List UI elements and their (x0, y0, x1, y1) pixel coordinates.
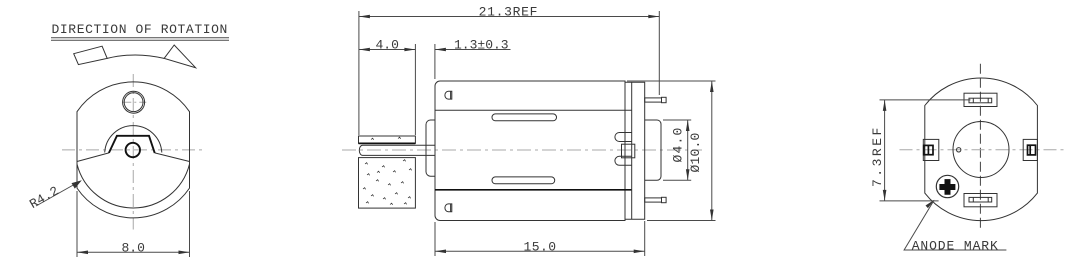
eccentric weight top-right edge (155, 153, 190, 162)
small vent mark bottom (445, 204, 452, 212)
terminal bottom outer (964, 194, 997, 207)
dim 21.3REF dimension line (359, 16, 659, 18)
front bearing boss (426, 120, 435, 176)
weight flange bottom edge (thick) (359, 142, 416, 144)
terminal pin bottom (645, 198, 662, 202)
top screw inner circle (124, 93, 143, 112)
svg-text:7.3REF: 7.3REF (870, 125, 885, 187)
dim Ø10.0 arrows (710, 81, 714, 221)
anode mark circle (936, 175, 958, 197)
axis centerline (342, 149, 702, 151)
shaft top and bottom lines (363, 145, 435, 155)
brush hook upper (615, 133, 632, 142)
dim 1.3±0.3 extension line (434, 44, 436, 79)
rotation arrow arc (107, 55, 164, 58)
brush hook lower (615, 156, 632, 165)
shaft left end cap (359, 145, 362, 155)
end bell (625, 82, 645, 219)
dim 1.3±0.3 dimension line (435, 49, 511, 51)
svg-text:ANODE MARK: ANODE MARK (912, 239, 999, 254)
dim 4.0 extension line right (414, 44, 416, 135)
dim 8.0 dimension line (77, 251, 190, 253)
terminal left outer (923, 139, 939, 160)
svg-text:Ø4.0: Ø4.0 (671, 126, 686, 162)
dim 8.0 extension lines (77, 191, 190, 257)
boss trapezoid (thick) (109, 136, 155, 153)
dim Ø10.0 extension lines (627, 81, 716, 221)
dim 4.0 text (376, 38, 399, 53)
dim Ø4.0 text (671, 126, 686, 162)
dim 21.3REF text (479, 5, 539, 20)
weight top flange (359, 136, 416, 143)
motor body outline (front view) (77, 82, 190, 218)
anode mark plus (939, 179, 955, 195)
eccentric weight bottom arc (77, 164, 190, 208)
terminal right outer (1023, 139, 1037, 160)
terminal pin top (645, 98, 662, 102)
dim Ø4.0 extension lines (663, 120, 691, 180)
end bell step line (631, 82, 633, 219)
dim 15.0 extension lines (435, 221, 645, 256)
bearing boss arc (105, 126, 162, 153)
svg-text:4.0: 4.0 (376, 38, 399, 53)
dim 4.0 dimension line (359, 49, 416, 51)
dim 21.3REF arrows (359, 15, 659, 19)
rotation arrow tail rectangle (74, 46, 108, 64)
svg-text:21.3REF: 21.3REF (479, 5, 539, 20)
anode leader arrowhead (926, 200, 935, 208)
dim 7.3REF arrows (883, 100, 887, 201)
small shaft hole (957, 148, 961, 152)
svg-text:15.0: 15.0 (524, 240, 557, 255)
terminal pin bottom cap (662, 197, 667, 202)
ANODE MARK text (912, 239, 999, 254)
label underline (double) (51, 38, 229, 40)
dim 7.3REF dimension line (884, 100, 886, 201)
anode leader line (904, 200, 1006, 250)
dim Ø10.0 text (688, 132, 703, 172)
dim 8.0 arrows (77, 251, 190, 255)
motor body outline (side view) (435, 81, 625, 221)
terminal right divider (1029, 145, 1031, 155)
shaft end bearing box (622, 144, 635, 158)
weight speckle texture (363, 137, 412, 205)
dim Ø4.0 arrows (686, 120, 690, 180)
svg-text:Ø10.0: Ø10.0 (688, 132, 703, 172)
R4.2 text (27, 183, 62, 212)
dim 1.3±0.3 text (454, 38, 509, 53)
case seam line bottom (thick) (435, 189, 632, 191)
dim 8.0 text (122, 241, 145, 256)
rear boss (645, 120, 661, 180)
dim 7.3REF extension lines (880, 100, 971, 201)
terminal pin top cap (662, 97, 667, 102)
terminal right inner (thick) (1028, 145, 1036, 155)
shaft circle (thick) (126, 143, 140, 157)
dim Ø4.0 dimension line (687, 120, 689, 180)
dim 21.3REF extension lines (359, 11, 659, 135)
rear cover outline (925, 78, 1038, 221)
centerline horizontal (62, 149, 204, 151)
R4.2 leader line (36, 182, 80, 207)
centerline vertical (132, 74, 134, 230)
centerline horizontal (900, 149, 1064, 151)
svg-text:1.3±0.3: 1.3±0.3 (454, 38, 509, 53)
case slot lower (492, 177, 555, 184)
svg-text:8.0: 8.0 (122, 241, 145, 256)
dim 1.3±0.3 arrow (435, 48, 446, 52)
terminal top outer (964, 93, 997, 106)
dim 15.0 arrows (435, 250, 645, 254)
svg-text:DIRECTION OF ROTATION: DIRECTION OF ROTATION (52, 22, 228, 37)
dim 4.0 arrows (359, 48, 416, 52)
terminal top inner (969, 98, 992, 103)
centerline cross of top screw (122, 101, 146, 103)
terminal left divider (927, 145, 929, 154)
case seam line top (435, 109, 632, 111)
R4.2 leader arrowhead (72, 180, 82, 188)
terminal top dividers (973, 98, 988, 103)
case slot upper (492, 114, 557, 121)
terminal bottom inner (969, 197, 992, 202)
small vent mark top (445, 91, 452, 99)
eccentric weight top-left edge (77, 153, 109, 162)
terminal left inner (thick) (924, 145, 933, 154)
weight main block (359, 158, 416, 209)
rotation arrowhead triangle (164, 45, 196, 68)
dim Ø10.0 dimension line (711, 81, 713, 221)
dim 7.3REF text (870, 125, 885, 187)
rotor circle (953, 122, 1009, 178)
terminal bottom dividers (973, 197, 988, 202)
dim 15.0 dimension line (435, 250, 645, 252)
centerline vertical (dashed dark) (979, 64, 981, 229)
dim 15.0 text (524, 240, 557, 255)
top screw outer circle (123, 91, 145, 113)
label: DIRECTION OF ROTATION (52, 22, 228, 37)
